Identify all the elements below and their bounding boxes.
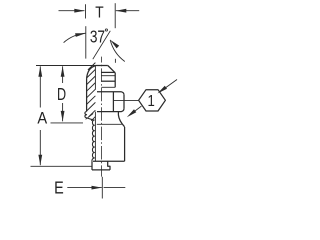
- balloon lower-left leader with arrowhead pointing at socket: [127, 106, 142, 117]
- dimension D vertical line with up arrow: [61, 66, 65, 83]
- bore line upper segment: [94, 66, 96, 90]
- dimension E horizontal line with right arrowhead: [67, 186, 102, 190]
- svg-text:A: A: [37, 110, 47, 128]
- angular dim 37deg diagonal extension line: [93, 31, 111, 59]
- angular dim vertical extension line: [85, 26, 87, 58]
- label 37 degrees: [90, 28, 105, 47]
- balloon leader horizontal from nut: [114, 99, 139, 101]
- stem stub left edge: [91, 161, 93, 170]
- svg-text:1: 1: [148, 93, 155, 110]
- nut bottom rounded corner and bottom edge: [97, 108, 124, 111]
- svg-text:T: T: [95, 4, 103, 22]
- degree symbol: [105, 29, 107, 31]
- neck below nut and fillet curve to socket: [118, 112, 124, 127]
- transition hatch tick: [86, 114, 94, 120]
- dimension E horizontal line right segment: [104, 187, 126, 189]
- angular dim left arc leader with arrowhead: [64, 33, 86, 42]
- dimension T horizontal line left segment with arrowhead: [59, 9, 85, 13]
- dimension T left extension line: [85, 4, 87, 18]
- socket outer left edge: [86, 78, 88, 111]
- stem stub right edge (stepped): [108, 161, 110, 170]
- svg-text:D: D: [57, 85, 66, 105]
- label T: [95, 4, 103, 22]
- serrated stem left edge (scalloped): [92, 120, 94, 161]
- fitting: top face: [95, 65, 107, 67]
- dimension A vertical line with up arrow: [38, 66, 42, 107]
- dimension A vertical line with down arrow: [38, 130, 42, 165]
- body bottom face: [93, 160, 125, 162]
- dimension D bottom extension line: [51, 122, 84, 124]
- label E: [54, 178, 64, 198]
- angular dim right arc leader with arrowhead: [110, 40, 125, 62]
- dimension D vertical line with down arrow: [61, 103, 65, 121]
- centerline (dash-dot axis): [100, 57, 102, 177]
- fitting: 37deg flare chamfer: [108, 66, 115, 73]
- section hatch lines in socket wall: [87, 63, 96, 121]
- dimension T right extension line: [114, 3, 116, 28]
- fitting: head bottom line: [101, 86, 115, 88]
- svg-text:E: E: [54, 178, 64, 198]
- fitting: thread line 2: [101, 75, 115, 77]
- dimension E vertical extension line (centerline extended): [101, 177, 103, 199]
- balloon upper-right leader with arrowhead pointing at balloon: [157, 80, 177, 94]
- nut hex flat line: [112, 92, 114, 112]
- dimension T horizontal line right segment with arrowhead: [116, 9, 139, 13]
- socket right edge: [124, 127, 126, 161]
- socket top line: [97, 123, 122, 125]
- socket end serration transition: [85, 112, 95, 121]
- dimension A top extension line (shared with top face plane): [36, 65, 96, 67]
- bore line lower segment: [94, 112, 96, 162]
- fitting: thread line 3: [101, 80, 115, 82]
- balloon hexagon: [139, 90, 166, 111]
- nut right edge: [123, 95, 125, 109]
- fitting: thread line 1: [101, 71, 115, 73]
- stem stub bottom face: [92, 169, 110, 171]
- flare bell arc at top left: [87, 66, 95, 78]
- fitting: small tick above chamfer corner: [114, 59, 116, 63]
- dimension A bottom extension line (shared with body bottom face): [31, 165, 92, 167]
- fitting: right edge of threaded head: [114, 73, 116, 88]
- nut top edge with rounded right corner: [97, 92, 124, 95]
- balloon label 1: [148, 93, 155, 110]
- label A: [37, 110, 47, 128]
- label D: [57, 85, 66, 105]
